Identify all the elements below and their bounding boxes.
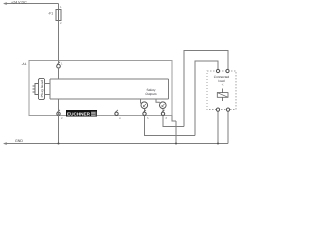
terminal FO1A <box>143 112 146 115</box>
svg-text:EUCHNER: EUCHNER <box>67 112 91 117</box>
wire load return left <box>217 111 219 143</box>
wire terminal to body <box>58 61 60 80</box>
node GND arrow <box>4 143 8 145</box>
outer box A1 <box>29 61 172 116</box>
terminal GND bottom <box>57 112 60 115</box>
terminal OD <box>115 112 118 115</box>
wire FO1A to terminal <box>144 109 146 112</box>
connected load box <box>207 71 236 110</box>
load terminal bottom right <box>226 108 229 111</box>
wire housing jog <box>172 116 176 122</box>
wire load symbol stub top <box>222 89 224 93</box>
svg-text:-K: -K <box>221 84 224 87</box>
wire FO1B to terminal <box>162 109 164 112</box>
terminal FO1B <box>161 112 164 115</box>
EUCHNER logo <box>66 110 97 117</box>
wire A riser <box>184 51 228 127</box>
wire FO1A down and right <box>145 116 196 136</box>
wire load symbol stub bottom <box>222 97 224 101</box>
load symbol <box>217 93 228 98</box>
wire body to FO1A <box>141 99 142 103</box>
svg-text:Outputs: Outputs <box>145 92 157 96</box>
svg-text:Plug lead: Plug lead <box>40 80 44 98</box>
GND rail <box>4 143 228 145</box>
wire B riser <box>195 61 218 136</box>
load terminal top right <box>226 69 229 72</box>
load terminal top left <box>216 69 219 72</box>
svg-text:GND: GND <box>15 139 23 143</box>
svg-text:load: load <box>218 79 224 83</box>
wire +24V rail <box>4 3 59 5</box>
fuse F1 <box>56 10 61 21</box>
svg-text:+24 V DC: +24 V DC <box>11 0 27 4</box>
plug pins <box>33 84 39 95</box>
device body <box>50 79 169 99</box>
wire GND down <box>58 99 60 144</box>
wire fuse feed <box>58 4 60 10</box>
node +24V arrow <box>4 3 8 5</box>
output driver FO1B <box>160 102 167 109</box>
wire body to FO1B <box>156 99 159 103</box>
terminal pin 1 top <box>57 64 61 68</box>
load terminal bottom left <box>216 108 219 111</box>
junction GND-load <box>217 143 219 145</box>
svg-text:-F1: -F1 <box>48 12 53 16</box>
junction GND-earth <box>175 143 177 145</box>
plug lead connector <box>39 79 45 100</box>
wire fuse to box <box>58 21 60 61</box>
junction GND-device <box>58 143 60 145</box>
wire connector stub top <box>45 83 51 85</box>
output driver FO1A <box>141 102 148 109</box>
wire earth down <box>175 121 177 144</box>
wire connector stub bottom <box>45 94 51 96</box>
wire FO1B down and right <box>163 116 184 127</box>
svg-text:-A1: -A1 <box>22 62 27 66</box>
wire load return right <box>227 111 229 143</box>
